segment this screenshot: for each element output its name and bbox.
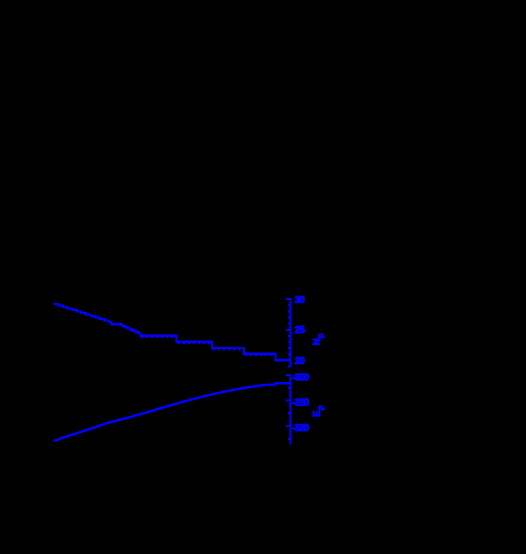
svg-text:30: 30 <box>295 295 306 306</box>
svg-text:-300: -300 <box>292 372 309 383</box>
svg-text:20: 20 <box>295 356 306 367</box>
svg-text:25: 25 <box>295 325 306 336</box>
svg-text:-310: -310 <box>292 398 309 409</box>
svg-text:-320: -320 <box>292 423 309 434</box>
